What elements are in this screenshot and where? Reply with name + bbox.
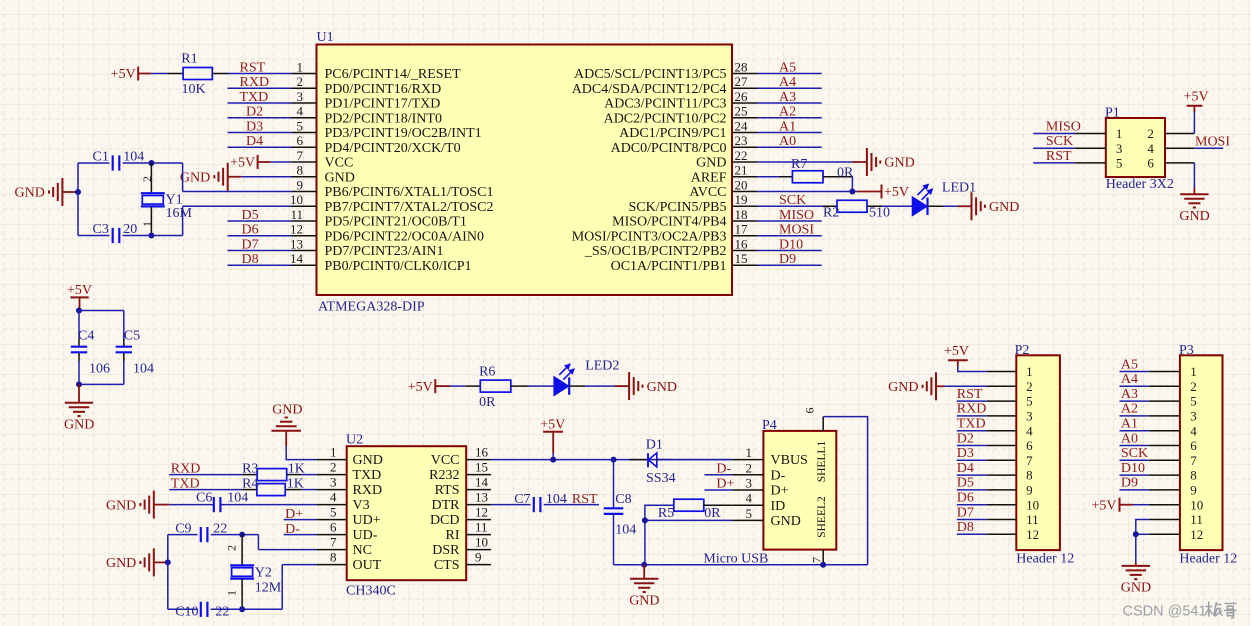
svg-text:U1: U1 xyxy=(317,30,334,45)
node junction AVCC xyxy=(849,189,855,195)
svg-text:15: 15 xyxy=(735,251,748,266)
svg-text:1: 1 xyxy=(297,59,304,74)
svg-text:D4: D4 xyxy=(957,461,974,476)
svg-text:3: 3 xyxy=(1116,141,1123,156)
wire junction to +5V xyxy=(852,191,857,193)
svg-text:11: 11 xyxy=(1026,512,1039,527)
wire RST net to U1 pin1 xyxy=(228,73,292,75)
svg-text:OUT: OUT xyxy=(353,558,382,573)
P4 shell pin 6 xyxy=(803,408,824,431)
wire net MOSI from P1 pin4 xyxy=(1194,147,1223,149)
svg-text:R2: R2 xyxy=(823,206,839,221)
svg-text:23: 23 xyxy=(735,133,748,148)
wire +5V to R6 xyxy=(450,385,466,387)
svg-text:104: 104 xyxy=(546,492,567,507)
svg-text:5: 5 xyxy=(1116,156,1123,171)
svg-text:TXD: TXD xyxy=(240,90,269,105)
svg-text:+5V: +5V xyxy=(230,156,255,171)
svg-text:R3: R3 xyxy=(242,461,258,476)
ground GND left of crystal xyxy=(15,178,78,206)
wire net D2 to P2 xyxy=(957,445,987,447)
wire net D7 to P2 xyxy=(957,519,987,521)
svg-text:14: 14 xyxy=(475,474,489,489)
wire C4/C5 top xyxy=(79,311,124,339)
node junction Y1 pin1 xyxy=(148,233,154,239)
svg-text:SCK: SCK xyxy=(1121,446,1148,461)
capacitor C10 22 xyxy=(175,602,229,620)
svg-text:104: 104 xyxy=(227,491,248,506)
wire net A4 to P3 xyxy=(1120,385,1149,387)
wire net D- to P4 pin2 xyxy=(705,474,733,476)
wire net A3 to P3 xyxy=(1120,400,1149,402)
svg-text:D2: D2 xyxy=(957,431,974,446)
svg-text:ADC5/SCL/PCINT13/PC5: ADC5/SCL/PCINT13/PC5 xyxy=(574,67,726,82)
diode D1 SS34 xyxy=(629,438,675,486)
svg-text:7: 7 xyxy=(297,148,304,163)
svg-text:D8: D8 xyxy=(242,252,259,267)
wire net D3 to P2 xyxy=(957,459,987,461)
svg-text:RXD: RXD xyxy=(240,75,270,90)
svg-text:AREF: AREF xyxy=(691,170,727,185)
wire net TXD to P2 xyxy=(957,430,987,432)
svg-text:RST: RST xyxy=(240,60,266,75)
svg-text:A4: A4 xyxy=(1121,372,1138,387)
wire R3 to U2 pin2 xyxy=(301,474,316,476)
svg-text:6: 6 xyxy=(803,408,817,414)
svg-text:RXD: RXD xyxy=(957,402,987,417)
wire LED1 to GND xyxy=(943,205,958,207)
wire net MISO from U1 pin 18 xyxy=(757,220,822,222)
wire net MISO to P1 xyxy=(1033,133,1075,135)
connector P4 Micro USB body xyxy=(703,418,836,567)
svg-text:C6: C6 xyxy=(196,491,212,506)
svg-text:DTR: DTR xyxy=(432,498,461,513)
ground GND at P2 xyxy=(888,372,944,400)
svg-text:C9: C9 xyxy=(175,522,191,537)
svg-text:GND: GND xyxy=(696,156,726,171)
svg-text:16: 16 xyxy=(735,236,749,251)
resistor R5 0R xyxy=(645,499,732,521)
svg-text:AVCC: AVCC xyxy=(689,185,726,200)
svg-text:13: 13 xyxy=(475,489,488,504)
svg-text:2: 2 xyxy=(1190,379,1197,394)
svg-text:D6: D6 xyxy=(957,491,974,506)
svg-text:2: 2 xyxy=(140,176,154,182)
connector P2 Header 12 body xyxy=(1015,343,1075,567)
svg-text:UD+: UD+ xyxy=(353,513,381,528)
svg-text:GND: GND xyxy=(180,170,210,185)
svg-text:10: 10 xyxy=(1190,497,1203,512)
power +5V at P3 pin10 xyxy=(1091,498,1133,514)
svg-text:3: 3 xyxy=(1190,409,1197,424)
wire net SCK to P3 xyxy=(1120,459,1149,461)
svg-text:V3: V3 xyxy=(353,498,370,513)
svg-text:+5V: +5V xyxy=(944,344,969,359)
svg-text:D1: D1 xyxy=(646,438,663,453)
svg-text:2: 2 xyxy=(330,459,337,474)
wire P3 pin12 to GND rail xyxy=(1136,533,1149,535)
svg-text:24: 24 xyxy=(735,118,749,133)
svg-text:MOSI: MOSI xyxy=(779,223,814,238)
svg-text:GND: GND xyxy=(647,380,677,395)
svg-text:R232: R232 xyxy=(429,468,459,483)
wire net D6 to P2 xyxy=(957,504,987,506)
svg-text:8: 8 xyxy=(297,163,304,178)
connector P3 Header 12 body xyxy=(1179,343,1237,567)
ground GND after LED1 xyxy=(958,192,1020,220)
svg-text:D+: D+ xyxy=(771,484,789,499)
ground GND below rail xyxy=(629,565,659,609)
wire net MOSI from U1 pin 17 xyxy=(757,235,822,237)
svg-text:LED2: LED2 xyxy=(585,358,619,373)
svg-text:9: 9 xyxy=(1190,483,1197,498)
wire net A1 to P3 xyxy=(1120,430,1149,432)
svg-text:+5V: +5V xyxy=(408,380,433,395)
svg-text:CTS: CTS xyxy=(434,558,460,573)
svg-text:12: 12 xyxy=(290,222,303,237)
svg-text:Y2: Y2 xyxy=(255,566,272,581)
crystal Y2 12M xyxy=(224,535,281,610)
svg-text:A5: A5 xyxy=(779,60,796,75)
svg-text:A0: A0 xyxy=(1121,431,1138,446)
wire C10 to junction and U2 pin8 xyxy=(211,565,317,610)
wire C4/C5 bottom xyxy=(79,361,124,384)
wire net RST to P2 xyxy=(957,400,987,402)
node junction R5 GND xyxy=(642,517,648,523)
svg-text:SHELL1: SHELL1 xyxy=(816,440,828,482)
svg-text:2: 2 xyxy=(224,545,238,551)
svg-text:5: 5 xyxy=(330,504,337,519)
svg-text:P1: P1 xyxy=(1105,105,1120,120)
wire +5V to P3 pin10 xyxy=(1133,504,1149,506)
wire net D10 from U1 pin 16 xyxy=(757,250,822,252)
svg-text:D-: D- xyxy=(285,522,300,537)
wire P4 pin5 GND xyxy=(645,519,732,521)
svg-text:D5: D5 xyxy=(242,208,259,223)
svg-text:RI: RI xyxy=(446,528,460,543)
svg-text:C4: C4 xyxy=(78,329,94,344)
svg-text:C8: C8 xyxy=(615,492,631,507)
svg-text:10K: 10K xyxy=(182,82,206,97)
svg-text:MISO: MISO xyxy=(1046,120,1081,135)
resistor R7 0R on AREF pin21 xyxy=(757,157,854,183)
svg-text:1: 1 xyxy=(140,221,154,227)
svg-text:D2: D2 xyxy=(246,105,263,120)
wire net D7 to U1 pin 13 xyxy=(228,250,292,252)
svg-text:4: 4 xyxy=(1026,423,1033,438)
LED LED1 xyxy=(911,180,976,215)
svg-text:26: 26 xyxy=(735,89,749,104)
svg-text:DCD: DCD xyxy=(430,513,460,528)
svg-text:PC6/PCINT14/_RESET: PC6/PCINT14/_RESET xyxy=(325,67,462,82)
svg-text:PD5/PCINT21/OC0B/T1: PD5/PCINT21/OC0B/T1 xyxy=(325,215,467,230)
svg-text:A4: A4 xyxy=(779,75,796,90)
ground GND at pin22 xyxy=(852,148,914,176)
ground GND above U2 pin1 xyxy=(271,402,302,446)
svg-text:4: 4 xyxy=(297,104,304,119)
P3 pins stubs and numbers xyxy=(1149,364,1204,542)
wire GND to pin8 xyxy=(241,176,291,178)
wire net D5 to P2 xyxy=(957,489,987,491)
node junction P3 GND xyxy=(1133,531,1139,537)
resistor R3 1K xyxy=(242,461,305,480)
svg-text:TXD: TXD xyxy=(171,476,200,491)
svg-text:VCC: VCC xyxy=(325,156,354,171)
svg-text:15: 15 xyxy=(475,459,488,474)
svg-text:104: 104 xyxy=(615,522,636,537)
svg-text:22: 22 xyxy=(735,148,748,163)
wire net D5 to U1 pin 11 xyxy=(228,220,292,222)
wire net D9 to P3 xyxy=(1120,489,1149,491)
svg-text:4: 4 xyxy=(330,489,337,504)
wire P1 pin6 to GND xyxy=(1193,163,1195,188)
svg-text:PB6/PCINT6/XTAL1/TOSC1: PB6/PCINT6/XTAL1/TOSC1 xyxy=(325,185,494,200)
svg-text:A5: A5 xyxy=(1121,357,1138,372)
svg-text:R7: R7 xyxy=(791,157,807,172)
wire SCK net from U1 pin19 xyxy=(757,205,823,207)
svg-text:25: 25 xyxy=(735,104,748,119)
svg-text:VCC: VCC xyxy=(431,453,460,468)
svg-text:7: 7 xyxy=(1026,453,1033,468)
wire net A0 to P3 xyxy=(1120,445,1149,447)
svg-text:11: 11 xyxy=(1190,512,1203,527)
wire net D+ to U2 pin5 xyxy=(284,519,317,521)
wire C1 to junction and pin9 XTAL1 xyxy=(123,163,292,192)
svg-text:5: 5 xyxy=(746,506,753,521)
svg-text:GND: GND xyxy=(888,380,918,395)
svg-text:RXD: RXD xyxy=(353,483,383,498)
svg-text:CH340C: CH340C xyxy=(346,583,396,598)
svg-text:UD-: UD- xyxy=(353,528,378,543)
op-amp U1 ATMEGA328-DIP body xyxy=(317,30,733,315)
svg-text:D-: D- xyxy=(771,468,786,483)
svg-text:7: 7 xyxy=(810,557,824,563)
svg-text:OC1A/PCINT1/PB1: OC1A/PCINT1/PB1 xyxy=(611,259,727,274)
wire net RXD to U1 pin 2 xyxy=(228,87,292,89)
svg-text:A3: A3 xyxy=(1121,387,1138,402)
wire P3 pin11 to GND rail xyxy=(1136,520,1149,563)
svg-text:GND: GND xyxy=(1121,580,1151,595)
svg-text:MOSI/PCINT3/OC2A/PB3: MOSI/PCINT3/OC2A/PB3 xyxy=(572,229,727,244)
P2 pins stubs and numbers xyxy=(987,364,1039,542)
power +5V for R1 xyxy=(111,67,151,83)
svg-text:6: 6 xyxy=(1026,438,1033,453)
capacitor C4 106 xyxy=(71,329,110,377)
wire net A5 from U1 pin 28 xyxy=(757,73,822,75)
svg-text:R4: R4 xyxy=(242,476,258,491)
wire C3 row left xyxy=(78,235,109,237)
svg-text:RST: RST xyxy=(572,492,598,507)
wire net RXD to P2 xyxy=(957,415,987,417)
connector P1 Header 3X2 body xyxy=(1105,105,1174,192)
wire net A5 to P3 xyxy=(1120,371,1149,373)
svg-text:2: 2 xyxy=(1026,379,1033,394)
resistor R6 0R xyxy=(466,364,528,410)
op-amp U2 CH340C body xyxy=(346,433,466,599)
svg-text:ADC1/PCIN9/PC1: ADC1/PCIN9/PC1 xyxy=(619,126,726,141)
wire GND to U2 pin1 xyxy=(286,446,316,460)
wire P2 pin1 to +5V xyxy=(958,366,987,372)
svg-text:6: 6 xyxy=(330,519,337,534)
svg-text:16: 16 xyxy=(475,444,489,459)
svg-text:Header 12: Header 12 xyxy=(1179,551,1237,566)
node junction C4 top xyxy=(76,308,82,314)
svg-text:P2: P2 xyxy=(1015,343,1030,358)
svg-text:13: 13 xyxy=(290,236,303,251)
capacitor C9 22 xyxy=(175,522,227,543)
power +5V for R6 xyxy=(408,379,450,395)
wire GND net from U1 pin22 xyxy=(757,161,852,163)
svg-text:6: 6 xyxy=(1147,156,1154,171)
svg-text:1: 1 xyxy=(746,445,753,460)
svg-text:11: 11 xyxy=(290,207,303,222)
svg-text:D3: D3 xyxy=(957,446,974,461)
svg-text:SS34: SS34 xyxy=(646,471,676,486)
svg-text:D10: D10 xyxy=(779,237,803,252)
svg-text:3: 3 xyxy=(1026,409,1033,424)
svg-text:28: 28 xyxy=(735,59,748,74)
wire +5V to R1 xyxy=(151,73,168,75)
svg-text:22: 22 xyxy=(215,604,229,619)
svg-text:12M: 12M xyxy=(255,580,282,595)
svg-text:SCK: SCK xyxy=(1046,134,1073,149)
svg-text:1: 1 xyxy=(224,590,238,596)
node junction +5V VCC xyxy=(550,457,556,463)
svg-text:D4: D4 xyxy=(246,134,263,149)
wire AREF to AVCC junction xyxy=(851,177,853,192)
node junction C8/D1 xyxy=(611,457,617,463)
svg-text:GND: GND xyxy=(106,498,136,513)
svg-text:PD1/PCINT17/TXD: PD1/PCINT17/TXD xyxy=(325,97,441,112)
wire net A3 from U1 pin 26 xyxy=(757,102,822,104)
svg-text:14: 14 xyxy=(290,251,304,266)
ground GND below P3 xyxy=(1121,563,1151,596)
node junction Y2 pin2 xyxy=(239,532,245,538)
capacitor C5 104 xyxy=(116,329,154,377)
capacitor C6 104 xyxy=(196,491,248,513)
wire C10 row xyxy=(168,608,198,610)
svg-text:4: 4 xyxy=(1190,423,1197,438)
wire R2 to LED1 xyxy=(882,205,911,207)
node junction left crystal xyxy=(75,189,81,195)
U1 pins 1-14 left stubs with numbers and names xyxy=(290,59,493,274)
svg-text:PD6/PCINT22/OC0A/AIN0: PD6/PCINT22/OC0A/AIN0 xyxy=(325,229,484,244)
svg-text:C5: C5 xyxy=(124,329,140,344)
svg-text:D5: D5 xyxy=(957,476,974,491)
svg-text:PD4/PCINT20/XCK/T0: PD4/PCINT20/XCK/T0 xyxy=(325,141,461,156)
wire net D6 to U1 pin 12 xyxy=(228,235,292,237)
svg-text:A2: A2 xyxy=(1121,402,1138,417)
wire net D9 from U1 pin 15 xyxy=(757,264,822,266)
wire net A4 from U1 pin 27 xyxy=(757,87,822,89)
svg-text:4: 4 xyxy=(1147,141,1154,156)
wire net D8 to P2 xyxy=(957,533,987,535)
svg-text:20: 20 xyxy=(735,177,748,192)
wire shell to rail xyxy=(823,417,867,565)
svg-text:GND: GND xyxy=(629,593,659,608)
svg-text:1: 1 xyxy=(330,444,337,459)
svg-text:GND: GND xyxy=(272,402,302,417)
svg-text:A2: A2 xyxy=(779,105,796,120)
svg-text:PD7/PCINT23/AIN1: PD7/PCINT23/AIN1 xyxy=(325,244,444,259)
wire C6 to U2 pin4 xyxy=(220,504,316,506)
svg-text:19: 19 xyxy=(735,192,748,207)
svg-text:7: 7 xyxy=(330,534,337,549)
node junction shell rail xyxy=(820,562,826,568)
svg-text:3: 3 xyxy=(330,474,337,489)
svg-text:3: 3 xyxy=(297,89,304,104)
wire LED2 to GND xyxy=(585,385,615,387)
svg-text:ADC4/SDA/PCINT12/PC4: ADC4/SDA/PCINT12/PC4 xyxy=(572,82,727,97)
svg-text:104: 104 xyxy=(133,362,154,377)
svg-text:A3: A3 xyxy=(779,90,796,105)
svg-text:D8: D8 xyxy=(957,520,974,535)
svg-text:9: 9 xyxy=(475,549,482,564)
ground GND after LED2 xyxy=(615,372,677,400)
P4 shell pin 7 xyxy=(810,550,824,565)
wire Y2 left rail xyxy=(167,535,169,610)
svg-text:D3: D3 xyxy=(246,119,263,134)
svg-text:PD0/PCINT16/RXD: PD0/PCINT16/RXD xyxy=(325,82,442,97)
node junction C4 bottom xyxy=(76,381,82,387)
wire net D2 to U1 pin 4 xyxy=(228,117,292,119)
svg-text:PB7/PCINT7/XTAL2/TOSC2: PB7/PCINT7/XTAL2/TOSC2 xyxy=(325,200,494,215)
LED LED2 xyxy=(554,358,619,395)
wire net D8 to U1 pin 14 xyxy=(228,264,292,266)
svg-text:0R: 0R xyxy=(837,165,854,180)
power +5V at VCC rail xyxy=(540,418,565,460)
svg-text:5: 5 xyxy=(1190,394,1197,409)
U2 pins 1-8 left stubs numbers names xyxy=(316,444,382,573)
svg-text:PD2/PCINT18/INT0: PD2/PCINT18/INT0 xyxy=(325,111,442,126)
svg-text:P3: P3 xyxy=(1179,343,1194,358)
wire net D4 to P2 xyxy=(957,474,987,476)
power +5V at P1 xyxy=(1184,89,1209,112)
svg-text:RTS: RTS xyxy=(435,483,460,498)
wire net TXD to U1 pin 3 xyxy=(228,102,292,104)
svg-text:A1: A1 xyxy=(779,119,796,134)
P4 pins 1-5 stubs numbers names xyxy=(732,445,808,529)
svg-text:21: 21 xyxy=(735,163,748,178)
svg-text:SHEEL2: SHEEL2 xyxy=(816,496,828,538)
svg-text:5: 5 xyxy=(297,118,304,133)
capacitor C8 104 xyxy=(604,460,637,565)
svg-text:RXD: RXD xyxy=(171,461,201,476)
svg-text:Header 12: Header 12 xyxy=(1016,551,1074,566)
svg-text:CSDN @541: CSDN @541 xyxy=(1123,604,1207,620)
svg-text:U2: U2 xyxy=(346,433,363,448)
svg-text:GND: GND xyxy=(106,556,136,571)
wire C3 to junction and pin10 XTAL2 xyxy=(123,206,292,235)
svg-text:12: 12 xyxy=(475,504,488,519)
svg-text:ADC0/PCINT8/PC0: ADC0/PCINT8/PC0 xyxy=(611,141,727,156)
power +5V at AVCC xyxy=(857,185,909,201)
svg-text:10: 10 xyxy=(1026,497,1039,512)
svg-text:ATMEGA328-DIP: ATMEGA328-DIP xyxy=(318,300,425,315)
svg-text:_SS/OC1B/PCINT2/PB2: _SS/OC1B/PCINT2/PB2 xyxy=(584,244,727,259)
svg-text:12: 12 xyxy=(1026,527,1039,542)
svg-text:D7: D7 xyxy=(242,237,259,252)
wire vertical crystal left rail xyxy=(77,163,79,236)
wire net A1 from U1 pin 24 xyxy=(757,132,822,134)
wire net TXD to R4 xyxy=(169,489,242,491)
svg-text:10: 10 xyxy=(290,192,303,207)
node junction Y2 rail xyxy=(165,559,171,565)
svg-text:+5V: +5V xyxy=(1184,89,1209,104)
svg-text:6: 6 xyxy=(1190,438,1197,453)
svg-text:GND: GND xyxy=(771,514,801,529)
svg-text:A1: A1 xyxy=(1121,417,1138,432)
